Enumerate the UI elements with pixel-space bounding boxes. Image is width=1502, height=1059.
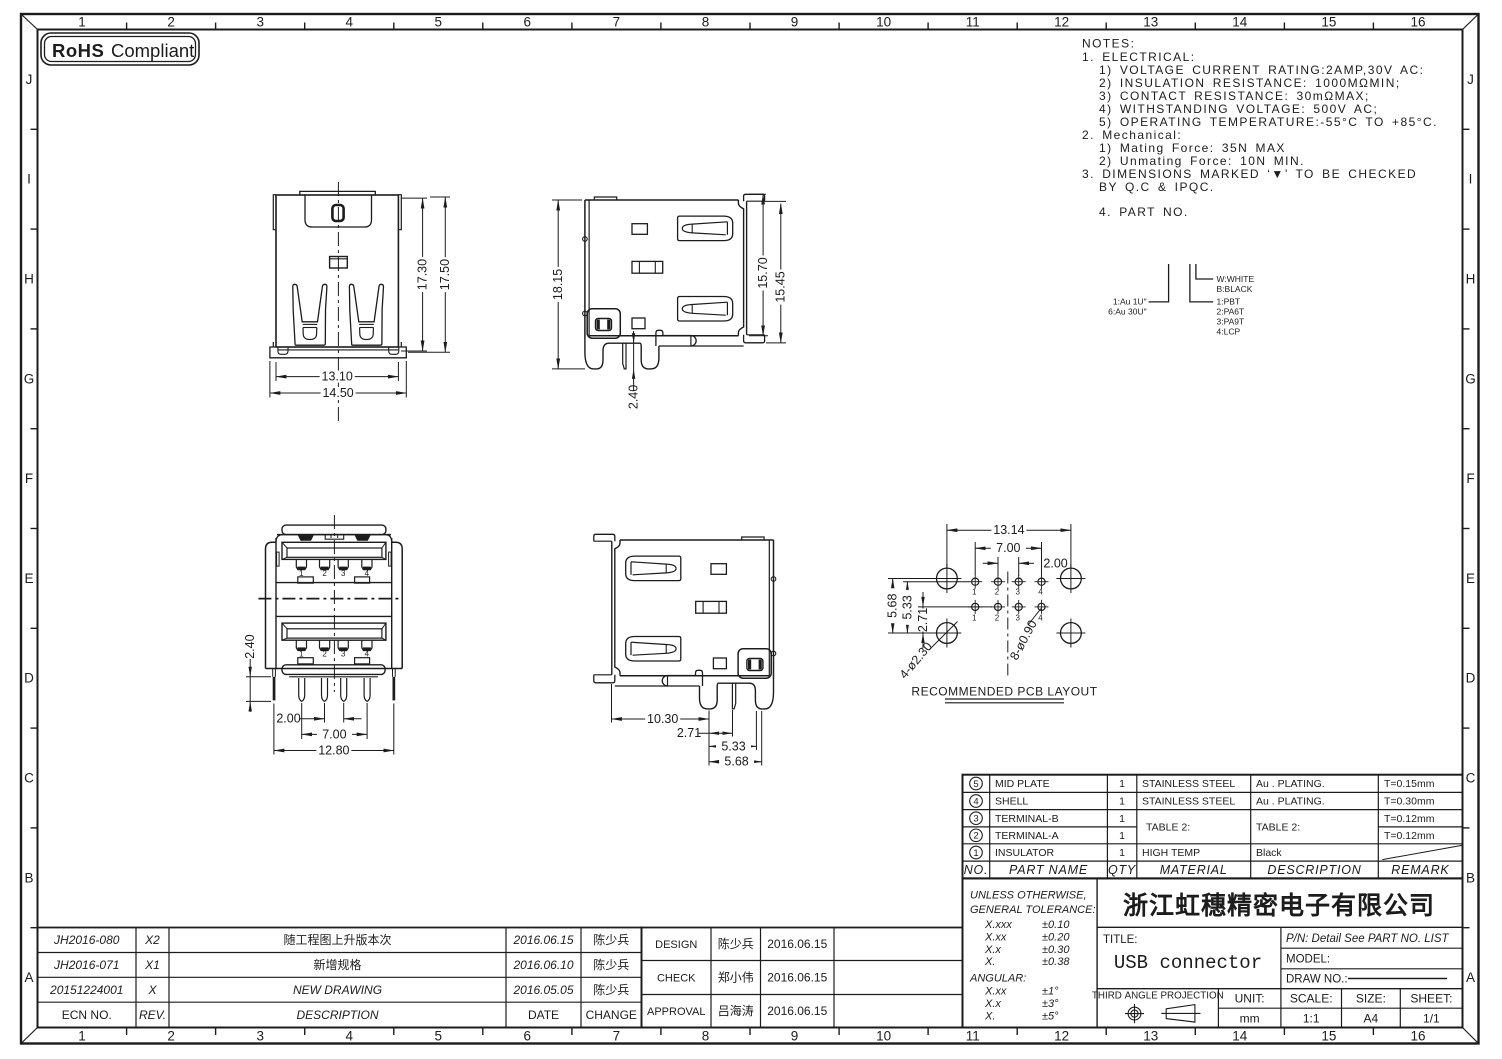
svg-text:UNLESS OTHERWISE,: UNLESS OTHERWISE, [970, 890, 1087, 902]
svg-text:4:LCP: 4:LCP [1217, 327, 1241, 337]
svg-text:2016.06.15: 2016.06.15 [512, 933, 573, 947]
svg-text:B: B [24, 870, 33, 885]
svg-text:W:WHITE: W:WHITE [1217, 274, 1255, 284]
part number tree line 2 [1190, 264, 1213, 302]
svg-text:H: H [1466, 272, 1476, 287]
svg-text:9: 9 [791, 1029, 799, 1044]
svg-text:4: 4 [1038, 588, 1043, 597]
svg-text:2016.06.10: 2016.06.10 [512, 958, 573, 972]
svg-text:TITLE:: TITLE: [1103, 934, 1138, 946]
front view top cavity [305, 195, 372, 227]
front view retention slot [332, 205, 343, 221]
svg-text:UNIT:: UNIT: [1235, 992, 1265, 1006]
svg-text:±0.38: ±0.38 [1042, 956, 1070, 968]
svg-text:REMARK: REMARK [1391, 863, 1449, 877]
svg-text:SCALE:: SCALE: [1290, 992, 1333, 1006]
svg-text:8: 8 [702, 15, 710, 30]
svg-text:X1: X1 [144, 958, 160, 972]
svg-text:JH2016-080: JH2016-080 [53, 933, 120, 947]
svg-text:5.68: 5.68 [724, 755, 748, 769]
svg-text:J: J [26, 72, 33, 87]
svg-text:16: 16 [1410, 1029, 1425, 1044]
svg-text:X.x: X.x [984, 944, 1001, 956]
svg-text:Au . PLATING.: Au . PLATING. [1256, 796, 1325, 808]
svg-text:3) CONTACT RESISTANCE: 30mΩMAX: 3) CONTACT RESISTANCE: 30mΩMAX; [1099, 89, 1370, 103]
svg-text:X.xx: X.xx [984, 986, 1007, 998]
svg-text:X: X [147, 983, 157, 997]
dimension 7.00 pcb [975, 541, 1041, 575]
svg-text:12: 12 [1054, 15, 1069, 30]
title block outline [963, 878, 1463, 1027]
svg-text:6: 6 [524, 15, 532, 30]
dimension 17.30 [401, 198, 430, 351]
svg-text:2) INSULATION RESISTANCE: 1000: 2) INSULATION RESISTANCE: 1000MΩMIN; [1099, 76, 1401, 90]
svg-text:G: G [24, 371, 35, 386]
svg-text:NOTES:: NOTES: [1082, 37, 1135, 51]
svg-text:9: 9 [791, 15, 799, 30]
svg-text:2.40: 2.40 [627, 385, 641, 409]
svg-text:15.45: 15.45 [774, 271, 788, 302]
svg-text:陈少兵: 陈少兵 [593, 932, 629, 947]
BOM header row [964, 863, 1450, 877]
svg-text:随工程图上升版本次: 随工程图上升版本次 [283, 932, 391, 947]
svg-text:A: A [1466, 970, 1475, 985]
bottom side view (mirrored) [594, 534, 776, 709]
svg-text:2: 2 [322, 650, 327, 659]
svg-text:15: 15 [1321, 1029, 1336, 1044]
svg-text:TERMINAL-B: TERMINAL-B [995, 813, 1059, 825]
svg-text:D: D [1466, 671, 1476, 686]
svg-text:2: 2 [995, 588, 1000, 597]
BOM remark diagonal (insulator row) [1382, 845, 1462, 859]
svg-text:1: 1 [1119, 847, 1125, 859]
pcb layout pin holes 0.90 [968, 575, 1048, 623]
svg-text:B: B [1466, 870, 1475, 885]
svg-text:10: 10 [876, 15, 891, 30]
svg-text:Black: Black [1256, 847, 1282, 859]
svg-text:4: 4 [1038, 614, 1043, 623]
BOM cell texts [995, 778, 1435, 859]
dimension 2.40 side [627, 331, 641, 409]
svg-text:5) OPERATING TEMPERATURE:-55°C: 5) OPERATING TEMPERATURE:-55°C TO +85°C. [1099, 115, 1438, 129]
svg-text:吕海涛: 吕海涛 [718, 1003, 754, 1018]
rear view shell dimples [298, 535, 371, 541]
svg-text:JH2016-071: JH2016-071 [53, 958, 119, 972]
svg-text:ANGULAR:: ANGULAR: [969, 973, 1026, 985]
svg-text:TABLE 2:: TABLE 2: [1146, 821, 1190, 833]
svg-text:STAINLESS STEEL: STAINLESS STEEL [1142, 796, 1235, 808]
svg-text:DESCRIPTION: DESCRIPTION [1267, 863, 1361, 877]
svg-text:6: 6 [524, 1029, 532, 1044]
svg-text:5.68: 5.68 [886, 594, 900, 618]
unit scale size sheet [1235, 992, 1453, 1026]
svg-text:±0.10: ±0.10 [1042, 919, 1070, 931]
svg-text:MODEL:: MODEL: [1286, 954, 1330, 966]
dimension 12.80 [274, 743, 394, 757]
svg-text:ECN NO.: ECN NO. [62, 1008, 112, 1022]
svg-text:5: 5 [435, 1029, 443, 1044]
svg-text:C: C [1466, 771, 1476, 786]
svg-text:mm: mm [1240, 1012, 1260, 1026]
svg-text:PART NAME: PART NAME [1009, 863, 1088, 877]
svg-text:X.x: X.x [984, 998, 1001, 1010]
part number tree line 3 [1196, 264, 1213, 279]
svg-text:X.xx: X.xx [984, 932, 1007, 944]
leader 8-0.90 [1007, 609, 1041, 663]
svg-text:20151224001: 20151224001 [49, 983, 123, 997]
svg-text:Au . PLATING.: Au . PLATING. [1256, 778, 1325, 790]
svg-text:A4: A4 [1364, 1012, 1379, 1026]
corner diagonal top-right [1463, 14, 1479, 30]
tolerance box texts [969, 890, 1096, 1023]
svg-text:DESCRIPTION: DESCRIPTION [296, 1008, 378, 1022]
svg-text:P/N: Detail See PART NO. LIST: P/N: Detail See PART NO. LIST [1286, 933, 1450, 945]
svg-text:1) Mating Force: 35N MAX: 1) Mating Force: 35N MAX [1099, 141, 1286, 155]
svg-text:1:Au 1U″: 1:Au 1U″ [1113, 297, 1147, 307]
dimension 13.10 [276, 362, 398, 384]
part number tree labels [1108, 274, 1254, 337]
dimension 5.33 pcb [900, 582, 969, 633]
front view left contact spring [293, 284, 327, 345]
svg-text:Compliant: Compliant [111, 40, 194, 61]
svg-text:15: 15 [1321, 15, 1336, 30]
svg-text:13: 13 [1143, 1029, 1158, 1044]
svg-text:18.15: 18.15 [551, 269, 565, 300]
svg-text:H: H [24, 272, 34, 287]
BOM parts table grid [963, 775, 1463, 879]
svg-text:I: I [1469, 172, 1473, 187]
svg-text:RoHS: RoHS [52, 40, 104, 61]
svg-text:INSULATOR: INSULATOR [995, 847, 1055, 859]
svg-text:2:PA6T: 2:PA6T [1217, 307, 1245, 317]
svg-text:14.50: 14.50 [322, 386, 353, 400]
svg-text:±3°: ±3° [1042, 998, 1059, 1010]
approval table grid [642, 928, 963, 1028]
svg-text:±5°: ±5° [1042, 1011, 1059, 1023]
svg-text:13.14: 13.14 [993, 523, 1024, 537]
svg-text:13.10: 13.10 [322, 370, 353, 384]
corner diagonal top-left [21, 14, 38, 30]
front view body shell outline [273, 195, 401, 347]
front view top tab [300, 191, 376, 195]
svg-text:F: F [25, 471, 33, 486]
pcb layout caption [911, 685, 1097, 703]
svg-text:E: E [24, 571, 33, 586]
rear pin extension lines [274, 703, 394, 755]
rear view bottom lid [282, 665, 385, 677]
svg-text:2016.06.15: 2016.06.15 [767, 971, 827, 985]
svg-text:QTY: QTY [1108, 863, 1137, 877]
svg-text:7: 7 [613, 15, 621, 30]
svg-text:SIZE:: SIZE: [1356, 992, 1386, 1006]
svg-text:12.80: 12.80 [318, 743, 349, 757]
svg-text:T=0.30mm: T=0.30mm [1384, 796, 1435, 808]
svg-text:7: 7 [613, 1029, 621, 1044]
svg-text:6:Au 30U″: 6:Au 30U″ [1108, 307, 1146, 317]
svg-text:8: 8 [702, 1029, 710, 1044]
svg-text:CHANGE: CHANGE [586, 1008, 637, 1022]
svg-text:TABLE 2:: TABLE 2: [1256, 821, 1300, 833]
svg-text:T=0.12mm: T=0.12mm [1384, 813, 1435, 825]
svg-text:3: 3 [256, 15, 264, 30]
svg-text:5.33: 5.33 [900, 595, 914, 619]
svg-text:B:BLACK: B:BLACK [1217, 284, 1253, 294]
part number tree line 1 [1149, 264, 1169, 302]
svg-text:1: 1 [1119, 830, 1125, 842]
svg-text:17.30: 17.30 [416, 259, 430, 290]
rear view lid center notch [325, 535, 344, 540]
svg-text:2: 2 [167, 15, 175, 30]
svg-text:17.50: 17.50 [438, 259, 452, 290]
svg-text:11: 11 [966, 1029, 980, 1044]
front view right contact spring [349, 284, 383, 345]
dimension 2.40 rear [243, 629, 271, 712]
svg-text:2.00: 2.00 [276, 712, 300, 726]
svg-text:X.: X. [984, 956, 995, 968]
svg-text:4: 4 [345, 15, 353, 30]
svg-text:5.33: 5.33 [721, 739, 745, 753]
dimension 18.15 [551, 200, 585, 369]
leader 4-2.30 [897, 622, 958, 682]
svg-text:A: A [24, 970, 33, 985]
svg-text:X2: X2 [144, 933, 160, 947]
svg-text:1: 1 [78, 1029, 86, 1044]
svg-text:1) VOLTAGE CURRENT RATING:2AMP: 1) VOLTAGE CURRENT RATING:2AMP,30V AC: [1099, 63, 1424, 77]
svg-text:3: 3 [341, 569, 346, 578]
svg-text:陈少兵: 陈少兵 [593, 982, 629, 997]
dimension 2.00 pcb [983, 557, 1068, 577]
svg-text:NO.: NO. [964, 863, 989, 877]
svg-text:F: F [1466, 471, 1474, 486]
svg-text:3: 3 [341, 650, 346, 659]
svg-text:1:1: 1:1 [1303, 1012, 1320, 1026]
svg-text:2.71: 2.71 [677, 726, 701, 740]
svg-text:SHELL: SHELL [995, 796, 1028, 808]
svg-text:DRAW NO.:: DRAW NO.: [1286, 974, 1348, 986]
svg-text:14: 14 [1232, 15, 1248, 30]
svg-text:MATERIAL: MATERIAL [1160, 863, 1228, 877]
svg-text:1: 1 [972, 614, 977, 623]
svg-text:1: 1 [78, 15, 86, 30]
svg-text:7.00: 7.00 [996, 541, 1020, 555]
svg-text:3: 3 [256, 1029, 264, 1044]
svg-text:11: 11 [966, 15, 980, 30]
svg-text:10: 10 [876, 1029, 891, 1044]
projection symbol circle [1125, 1004, 1144, 1023]
svg-text:3: 3 [1015, 588, 1020, 597]
svg-text:12: 12 [1054, 1029, 1069, 1044]
svg-text:2) Unmating Force: 10N MIN.: 2) Unmating Force: 10N MIN. [1099, 154, 1305, 168]
corner diagonal bottom-left [21, 1028, 38, 1044]
svg-text:14: 14 [1232, 1029, 1248, 1044]
projection symbol cone [1161, 1005, 1200, 1023]
svg-text:10.30: 10.30 [647, 712, 678, 726]
svg-text:4) WITHSTANDING VOLTAGE: 500V: 4) WITHSTANDING VOLTAGE: 500V AC; [1099, 102, 1378, 116]
dimension 7.00 [302, 727, 367, 741]
svg-text:2: 2 [167, 1029, 175, 1044]
svg-text:±1°: ±1° [1042, 986, 1059, 998]
dimension 13.14 [947, 523, 1071, 568]
dimension 2.00 [276, 712, 361, 726]
approval table texts [647, 936, 828, 1018]
svg-text:陈少兵: 陈少兵 [593, 957, 629, 972]
svg-text:T=0.15mm: T=0.15mm [1384, 778, 1435, 790]
svg-text:浙江虹穗精密电子有限公司: 浙江虹穗精密电子有限公司 [1123, 891, 1435, 920]
svg-text:X.: X. [984, 1011, 995, 1023]
rear view top lid [282, 525, 386, 535]
front view bottom flange [270, 347, 406, 358]
revision table grid [38, 928, 642, 1028]
svg-text:G: G [1465, 371, 1476, 386]
dimension 2.71 pcb [916, 592, 992, 648]
svg-text:1: 1 [1119, 778, 1125, 790]
svg-text:3: 3 [973, 814, 978, 825]
rear view body outline [266, 535, 403, 669]
svg-text:D: D [24, 671, 34, 686]
svg-text:BY Q.C & IPQC.: BY Q.C & IPQC. [1099, 180, 1215, 194]
svg-text:7.00: 7.00 [322, 727, 346, 741]
svg-text:SHEET:: SHEET: [1410, 992, 1452, 1006]
svg-text:CHECK: CHECK [657, 973, 696, 985]
svg-text:3:PA9T: 3:PA9T [1217, 317, 1245, 327]
svg-text:13: 13 [1143, 15, 1158, 30]
rear view lower port [282, 623, 386, 664]
svg-text:1: 1 [1119, 796, 1125, 808]
dimension 10.30 [612, 684, 710, 726]
svg-text:1. ELECTRICAL:: 1. ELECTRICAL: [1082, 50, 1196, 64]
BOM item number circles [970, 777, 983, 859]
svg-text:REV.: REV. [139, 1008, 166, 1022]
rear view pins [299, 678, 370, 701]
svg-text:STAINLESS STEEL: STAINLESS STEEL [1142, 778, 1235, 790]
dimension 5.33 [709, 711, 756, 753]
pcb layout centerline [1007, 572, 1009, 678]
title block grid lines [1097, 878, 1462, 1027]
revision table texts [49, 932, 637, 1022]
svg-text:2.71: 2.71 [916, 608, 930, 632]
svg-text:USB connector: USB connector [1114, 952, 1262, 974]
svg-text:J: J [1467, 72, 1474, 87]
svg-text:4. PART NO.: 4. PART NO. [1099, 205, 1189, 219]
svg-text:2. Mechanical:: 2. Mechanical: [1082, 128, 1182, 142]
svg-text:2016.05.05: 2016.05.05 [512, 983, 573, 997]
p/n model drawno rows [1286, 933, 1450, 986]
svg-text:2.00: 2.00 [1043, 557, 1067, 571]
svg-text:2: 2 [995, 614, 1000, 623]
svg-text:C: C [24, 771, 34, 786]
dimension 15.45 [765, 201, 788, 343]
svg-text:APPROVAL: APPROVAL [647, 1006, 706, 1018]
svg-text:X.xxx: X.xxx [984, 919, 1012, 931]
svg-text:15.70: 15.70 [756, 257, 770, 288]
pcb layout mounting holes 2.30 [932, 564, 1085, 648]
svg-text:5: 5 [973, 779, 978, 790]
dimension 15.70 [749, 194, 770, 336]
svg-text:2: 2 [322, 569, 327, 578]
front view vertical centerline [337, 182, 339, 425]
svg-text:2.40: 2.40 [243, 634, 257, 658]
svg-text:新增规格: 新增规格 [313, 957, 361, 972]
svg-text:2: 2 [973, 831, 978, 842]
svg-text:4: 4 [973, 796, 978, 807]
dimension 5.68 [709, 711, 762, 769]
svg-text:16: 16 [1410, 15, 1425, 30]
dimension 5.68 pcb [886, 579, 941, 634]
corner diagonal bottom-right [1463, 1028, 1479, 1044]
dimension 17.50 [408, 197, 452, 352]
svg-text:±0.20: ±0.20 [1042, 932, 1070, 944]
svg-text:TERMINAL-A: TERMINAL-A [995, 830, 1059, 842]
rear view side tabs [273, 669, 396, 701]
svg-text:±0.30: ±0.30 [1042, 944, 1070, 956]
svg-text:DESIGN: DESIGN [655, 939, 697, 951]
dimension 2.71 [677, 710, 733, 740]
svg-text:5: 5 [435, 15, 443, 30]
svg-text:DATE: DATE [528, 1008, 559, 1022]
rear view midplate lines [276, 583, 392, 617]
svg-text:1: 1 [973, 848, 978, 859]
front view middle window [330, 257, 348, 269]
svg-text:RECOMMENDED PCB LAYOUT: RECOMMENDED PCB LAYOUT [911, 685, 1097, 699]
svg-text:E: E [1466, 571, 1475, 586]
rear view upper port [282, 542, 386, 583]
notes text block [1082, 37, 1438, 220]
svg-text:2016.06.15: 2016.06.15 [767, 1004, 827, 1018]
svg-text:HIGH TEMP: HIGH TEMP [1142, 847, 1200, 859]
svg-text:4: 4 [345, 1029, 353, 1044]
svg-text:3: 3 [1015, 614, 1020, 623]
svg-text:THIRD ANGLE PROJECTION: THIRD ANGLE PROJECTION [1092, 990, 1224, 1001]
rear view centerlines [258, 515, 402, 692]
svg-text:1: 1 [1119, 813, 1125, 825]
svg-text:1: 1 [972, 588, 977, 597]
svg-text:T=0.12mm: T=0.12mm [1384, 830, 1435, 842]
svg-text:郑小伟: 郑小伟 [718, 970, 754, 985]
RoHS Compliant badge [41, 33, 199, 65]
svg-text:2016.06.15: 2016.06.15 [767, 937, 827, 951]
svg-text:GENERAL TOLERANCE:: GENERAL TOLERANCE: [970, 904, 1096, 916]
svg-text:I: I [27, 172, 31, 187]
svg-text:3. DIMENSIONS MARKED ‘▼’ TO BE: 3. DIMENSIONS MARKED ‘▼’ TO BE CHECKED [1082, 167, 1417, 181]
svg-text:NEW DRAWING: NEW DRAWING [293, 983, 382, 997]
svg-text:1/1: 1/1 [1423, 1012, 1440, 1026]
side view geometry [583, 194, 765, 369]
svg-text:陈少兵: 陈少兵 [718, 936, 754, 951]
svg-text:MID PLATE: MID PLATE [995, 778, 1050, 790]
dimension 14.50 [270, 361, 406, 400]
svg-text:1:PBT: 1:PBT [1217, 297, 1241, 307]
